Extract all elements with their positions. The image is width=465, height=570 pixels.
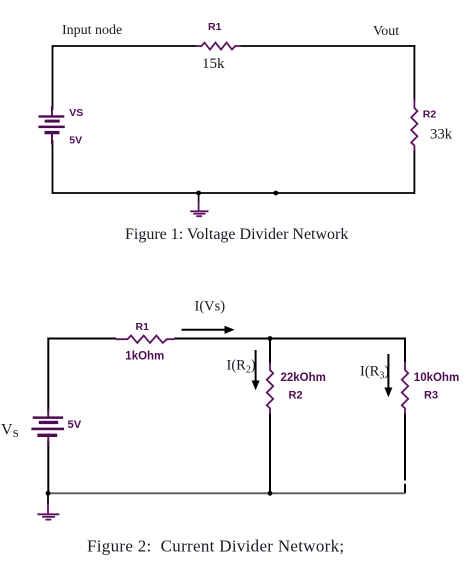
wire bottom horizontal bbox=[53, 192, 415, 194]
wire bottom horizontal bbox=[48, 492, 405, 494]
svg-text:R1: R1 bbox=[208, 21, 222, 33]
junction dot (output branch, figure 1) bbox=[273, 191, 278, 196]
wire left vertical (top to battery) bbox=[47, 338, 49, 412]
wire right vertical lower (R2 to bottom) bbox=[413, 149, 415, 194]
svg-text:VS: VS bbox=[1, 422, 19, 441]
svg-text:R3: R3 bbox=[424, 390, 438, 402]
svg-text:5V: 5V bbox=[68, 419, 82, 431]
wire left vertical lower (battery to bottom) bbox=[52, 140, 54, 194]
svg-text:33k: 33k bbox=[430, 127, 453, 143]
current arrow I(R2) bbox=[252, 350, 260, 390]
svg-text:R2: R2 bbox=[289, 390, 303, 402]
junction dot (bottom middle node, figure 2) bbox=[268, 491, 273, 496]
svg-text:I(Vs): I(Vs) bbox=[195, 299, 226, 315]
wire top segment middle (R1 to node) bbox=[174, 338, 270, 340]
wire left vertical (battery to bottom node) bbox=[47, 441, 49, 493]
svg-text:R1: R1 bbox=[136, 321, 150, 333]
wire right vertical upper (Vout to R2) bbox=[413, 45, 415, 101]
wire middle vertical upper (node to R2) bbox=[269, 339, 271, 365]
svg-text:10kOhm: 10kOhm bbox=[414, 372, 459, 384]
junction dot (bottom left node, figure 2) bbox=[46, 491, 51, 496]
svg-text:1kOhm: 1kOhm bbox=[125, 350, 164, 362]
wire right vertical lower (R3 to gap) bbox=[404, 413, 406, 481]
svg-text:R2: R2 bbox=[423, 109, 437, 121]
svg-text:15k: 15k bbox=[202, 56, 225, 72]
svg-text:Figure 1: Voltage Divider Netw: Figure 1: Voltage Divider Network bbox=[125, 226, 348, 243]
junction dot (top node, figure 2) bbox=[268, 336, 273, 341]
svg-text:5V: 5V bbox=[69, 135, 82, 147]
battery VS (figure 1) bbox=[38, 106, 64, 145]
svg-text:VS: VS bbox=[69, 107, 83, 119]
resistor R3 (vertical zigzag, figure 2) bbox=[402, 362, 408, 415]
wire right vertical stub below gap bbox=[404, 484, 406, 494]
resistor R2 (vertical zigzag, figure 2) bbox=[267, 362, 273, 415]
svg-text:Figure 2: Current Divider Net: Figure 2: Current Divider Network; bbox=[87, 536, 344, 555]
current arrow I(R3) bbox=[384, 354, 392, 397]
wire top segment left (to R1) bbox=[48, 338, 116, 340]
battery VS (figure 2) bbox=[31, 408, 64, 446]
ground (figure 2) bbox=[37, 493, 59, 519]
svg-text:I(R2): I(R2) bbox=[227, 358, 256, 376]
wire left vertical upper (to battery) bbox=[52, 45, 54, 110]
wire top segment right (node to R3 corner) bbox=[270, 338, 405, 340]
svg-text:22kOhm: 22kOhm bbox=[281, 372, 326, 384]
resistor R1 (horizontal zigzag, figure 2) bbox=[116, 336, 175, 343]
ground (figure 1) bbox=[190, 193, 208, 216]
wire right vertical upper (corner to R3) bbox=[404, 338, 406, 363]
resistor R2 (vertical zigzag, figure 1) bbox=[411, 99, 417, 151]
svg-text:Vout: Vout bbox=[373, 24, 399, 39]
resistor R1 (horizontal zigzag) bbox=[196, 43, 241, 50]
wire middle vertical lower (R2 to bottom) bbox=[269, 413, 271, 493]
junction dot (ground tap, figure 1) bbox=[196, 191, 201, 196]
svg-text:Input node: Input node bbox=[62, 23, 122, 38]
svg-text:I(R3): I(R3) bbox=[360, 364, 389, 382]
wire top-left segment (input node to R1) bbox=[53, 45, 197, 47]
current arrow I(Vs) bbox=[182, 326, 235, 334]
wire top-right segment (R1 to Vout corner) bbox=[241, 45, 416, 47]
